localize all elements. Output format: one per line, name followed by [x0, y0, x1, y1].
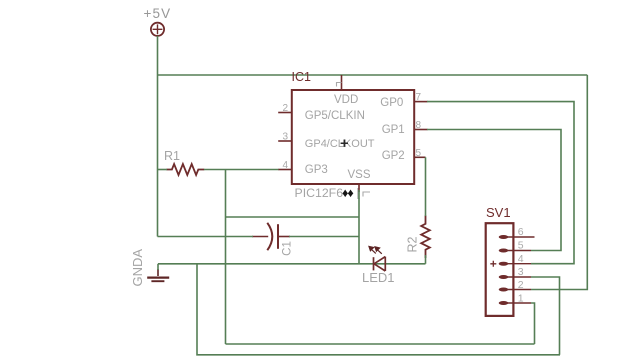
wire +5V vertical rail	[157, 36, 159, 237]
SV1 pin 3	[499, 275, 531, 279]
wire R2 to LED	[425, 255, 427, 264]
wire node A vertical	[225, 170, 227, 345]
LED light arrows	[369, 246, 382, 253]
SV1 pin 2	[499, 288, 531, 292]
wire top +5V rail horizontal	[158, 74, 588, 76]
wire +5V to SV1 pin2	[531, 75, 587, 290]
svg-text:R2: R2	[405, 236, 419, 252]
svg-text:6: 6	[518, 226, 524, 238]
svg-text:GP5/CLKIN: GP5/CLKIN	[305, 110, 365, 122]
pin number 8 mark (VSS)	[363, 192, 370, 197]
resistor R2	[421, 216, 430, 259]
svg-text:C1: C1	[282, 241, 294, 256]
wire ground stem	[157, 264, 159, 270]
wire R1 to GP3	[204, 169, 279, 171]
wire GP1 net	[427, 130, 561, 251]
wire VSS vertical	[358, 190, 360, 264]
SV1 pin 1	[499, 301, 531, 305]
wire ground horizontal	[158, 263, 426, 265]
capacitor C1	[252, 223, 290, 250]
svg-text:+5V: +5V	[144, 6, 172, 21]
svg-text:GNDA: GNDA	[130, 249, 145, 287]
SV1 pin 6	[499, 235, 535, 239]
IC pin 3 stub	[278, 140, 292, 142]
wire A to VSS-net horizontal	[226, 216, 360, 218]
IC pin 7 stub	[414, 101, 427, 103]
svg-text:♦♦: ♦♦	[342, 186, 353, 200]
svg-text:IC1: IC1	[292, 70, 312, 84]
pin number 1	[337, 83, 342, 87]
ground GNDA	[147, 269, 169, 281]
supply symbol +5V	[151, 23, 164, 36]
LED LED1	[374, 257, 386, 271]
svg-text:GP4/CLKOUT: GP4/CLKOUT	[305, 138, 375, 150]
wire GP0 net	[427, 102, 574, 264]
wire C1 to VSS net	[289, 236, 359, 238]
wire SV1 pin1 to A	[531, 303, 535, 344]
svg-text:2: 2	[518, 279, 524, 291]
IC pin VSS stub	[358, 184, 360, 192]
wire GP2 to R2	[425, 157, 427, 216]
svg-text:GP3: GP3	[305, 164, 328, 176]
svg-text:4: 4	[518, 253, 524, 265]
svg-text:1: 1	[518, 292, 524, 304]
wire IC pin1 VDD stub	[341, 75, 343, 90]
IC pin 5 stub	[414, 156, 425, 158]
connector SV1 body	[486, 223, 514, 316]
svg-text:8: 8	[416, 120, 422, 131]
svg-text:3: 3	[282, 132, 288, 143]
IC pin 4 stub	[278, 169, 292, 171]
svg-text:GP0: GP0	[380, 97, 403, 109]
svg-text:R1: R1	[164, 149, 180, 163]
wire GND down-left vertical	[197, 264, 560, 355]
wire SV1 pin3 to GND	[531, 277, 560, 355]
svg-text:GP2: GP2	[382, 150, 405, 162]
SV1 polarity +	[490, 261, 496, 267]
svg-text:GP1: GP1	[382, 124, 405, 136]
svg-text:VDD: VDD	[334, 94, 358, 106]
SV1 pin 4	[499, 262, 531, 266]
IC pin 8 stub	[414, 129, 427, 131]
SV1 pin 5	[499, 249, 531, 253]
wire +5V rail to C1	[158, 236, 254, 238]
svg-text:7: 7	[416, 92, 422, 103]
svg-text:PIC12F6: PIC12F6	[295, 186, 344, 200]
svg-text:2: 2	[282, 103, 288, 114]
svg-text:SV1: SV1	[486, 205, 511, 220]
svg-text:VSS: VSS	[348, 169, 371, 181]
svg-text:LED1: LED1	[362, 270, 395, 285]
svg-text:5: 5	[518, 239, 524, 251]
resistor R1	[167, 164, 205, 175]
svg-text:4: 4	[282, 160, 288, 171]
svg-text:3: 3	[518, 266, 524, 278]
svg-text:5: 5	[416, 148, 422, 159]
IC pin 2 stub	[278, 112, 292, 114]
wire R1 left	[158, 169, 168, 171]
wire node A bottom horizontal	[226, 343, 535, 345]
op-amp IC1 body	[292, 90, 414, 184]
